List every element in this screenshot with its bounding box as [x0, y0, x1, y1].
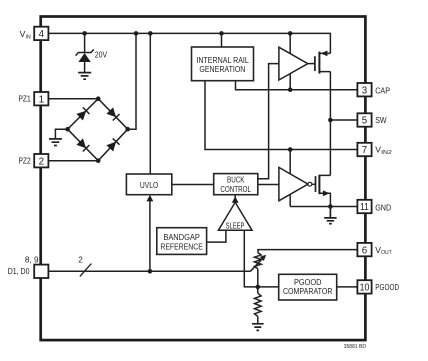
svg-text:PZ2: PZ2 — [19, 156, 31, 166]
pin 6 VOUT — [357, 243, 392, 256]
wire UVLO to buck — [172, 184, 214, 186]
pin 1 PZ1 — [19, 92, 49, 105]
wire driver1 supply — [289, 33, 291, 89]
svg-text:PZ1: PZ1 — [19, 94, 31, 104]
transistor Q1 drain-source column — [329, 72, 331, 176]
transistor Q1 PMOS channel bar — [318, 52, 320, 74]
wire buck to driver1 — [258, 64, 279, 179]
transistor Q2 NMOS channel bar — [318, 175, 320, 195]
wire VIN rail — [48, 33, 330, 53]
driver A2 inverting bubble — [308, 182, 312, 186]
wire bridge output riser — [128, 33, 136, 129]
diode bridge D-TL — [76, 111, 86, 121]
svg-text:PGOOD: PGOOD — [294, 278, 322, 287]
op-amp driver A2 — [279, 167, 308, 200]
node bridge top — [96, 96, 101, 101]
svg-text:GND: GND — [375, 203, 391, 213]
wire PZ1 to bridge — [48, 98, 98, 100]
ground (power NMOS) — [324, 207, 336, 224]
wire CAP rail — [236, 81, 358, 90]
ground (bridge) — [49, 139, 62, 146]
pot wiper arrow — [250, 258, 263, 271]
transistor Q2 source arrow — [323, 190, 330, 196]
svg-text:D1, D0: D1, D0 — [8, 267, 30, 276]
svg-text:35881 BD: 35881 BD — [344, 344, 367, 350]
svg-text:BANDGAP: BANDGAP — [163, 233, 200, 242]
svg-text:10: 10 — [360, 283, 370, 294]
block BUCK CONTROL — [214, 174, 258, 195]
wire R2 to ground — [257, 316, 259, 323]
svg-text:4: 4 — [39, 29, 45, 40]
node SW — [328, 118, 333, 123]
wire zener tap — [84, 33, 86, 52]
wire zener to ground — [84, 62, 86, 72]
wire bridge to ground — [55, 129, 67, 138]
svg-text:UVLO: UVLO — [140, 181, 158, 190]
svg-text:INTERNAL RAIL: INTERNAL RAIL — [196, 56, 249, 65]
svg-text:2: 2 — [39, 156, 44, 167]
chip outline — [41, 17, 366, 341]
svg-text:BUCK: BUCK — [227, 175, 245, 184]
svg-text:IN2: IN2 — [381, 150, 392, 156]
transistor Q2 NMOS gate bar — [315, 176, 317, 192]
wire VOUT rail — [258, 250, 357, 253]
bridge rectifier diamond — [68, 99, 128, 161]
node VIN2 — [288, 147, 293, 152]
transistor Q2 stubs — [319, 175, 330, 206]
node CAP — [288, 87, 293, 92]
wire sleep feedback — [244, 230, 257, 287]
node bridge right — [125, 127, 130, 132]
wire PZ2 to bridge — [48, 160, 98, 162]
svg-text:1: 1 — [39, 94, 44, 105]
svg-text:IN: IN — [26, 35, 31, 41]
wire VIN2 rail — [205, 81, 357, 150]
wire pgood comparator to pin — [337, 286, 358, 288]
zener diode 20V bar — [76, 49, 94, 55]
wire D1 D0 bus — [48, 270, 250, 272]
resistor R1 (programmable divider top) — [254, 253, 261, 269]
svg-text:REFERENCE: REFERENCE — [160, 243, 203, 252]
svg-text:CAP: CAP — [375, 85, 390, 95]
svg-text:8, 9: 8, 9 — [25, 255, 39, 264]
bus slash — [80, 264, 91, 277]
transistor Q1 PMOS gate bar — [314, 56, 316, 71]
wire buck to driver2 — [258, 184, 279, 186]
node divider tap — [255, 285, 260, 290]
zener diode 20V triangle — [78, 53, 90, 62]
wire driver2 supply upper — [289, 150, 291, 207]
node bridge bottom — [96, 158, 101, 163]
pin 8 9 D1 D0 — [8, 255, 49, 278]
node VIN-IRG — [219, 31, 224, 36]
pin 11 GND — [357, 200, 391, 213]
diode bridge D-BR — [106, 142, 116, 152]
svg-text:CONTROL: CONTROL — [220, 185, 251, 194]
node VIN-zener — [82, 31, 87, 36]
svg-text:GENERATION: GENERATION — [199, 65, 245, 74]
node VIN-bridge — [134, 31, 139, 36]
pin 3 CAP — [357, 83, 390, 96]
svg-text:5: 5 — [362, 116, 368, 127]
wire driver2 gate — [312, 183, 316, 185]
svg-text:SW: SW — [375, 115, 387, 125]
pin 10 PGOOD — [357, 280, 399, 293]
wire divider mid — [257, 269, 259, 294]
wire GND rail — [290, 206, 357, 208]
wire UVLO feed — [149, 33, 151, 173]
svg-text:6: 6 — [362, 245, 368, 256]
node bus-UVLO — [148, 269, 153, 274]
op-amp driver A1 — [279, 47, 308, 80]
node VIN-UVLO — [148, 31, 153, 36]
sleep output arrow — [234, 195, 236, 203]
block UVLO — [126, 174, 171, 195]
wire internal rail feed — [221, 33, 223, 47]
svg-text:2: 2 — [78, 255, 82, 264]
pin 2 PZ2 — [19, 154, 49, 167]
transistor Q1 source arrow — [321, 51, 328, 57]
wire divider tap to pgood comparator — [258, 286, 279, 288]
svg-text:3: 3 — [362, 85, 368, 96]
block PGOOD COMPARATOR — [279, 274, 337, 300]
resistor R2 (divider bottom) — [255, 293, 262, 316]
svg-text:COMPARATOR: COMPARATOR — [283, 287, 333, 296]
svg-text:OUT: OUT — [381, 250, 392, 256]
svg-text:PGOOD: PGOOD — [375, 282, 399, 292]
node GND — [328, 204, 333, 209]
diode bridge D-TR — [106, 107, 116, 117]
block INTERNAL RAIL GENERATION — [192, 47, 254, 81]
pin 4 VIN — [20, 27, 49, 41]
ground (divider) — [252, 324, 264, 331]
pin 5 SW — [357, 113, 387, 126]
transistor Q1 stubs — [319, 53, 330, 71]
svg-text:11: 11 — [360, 202, 369, 213]
diode bridge D-BL — [76, 138, 86, 148]
block BANDGAP REFERENCE — [157, 228, 207, 255]
ground (zener) — [78, 73, 91, 80]
svg-text:7: 7 — [362, 145, 367, 156]
svg-text:20V: 20V — [95, 51, 108, 60]
comparator SLEEP triangle — [218, 202, 252, 230]
wire bandgap to sleep — [207, 230, 226, 242]
node bridge left — [65, 127, 70, 132]
svg-text:SLEEP: SLEEP — [226, 221, 245, 230]
pin 7 VIN2 — [357, 143, 392, 156]
wire SW node — [330, 119, 357, 121]
wire UVLO sense riser — [149, 201, 151, 271]
wire driver1 gate — [308, 63, 315, 65]
node VIN-driver1 — [288, 31, 293, 36]
uvlo sense arrowhead — [147, 195, 154, 202]
